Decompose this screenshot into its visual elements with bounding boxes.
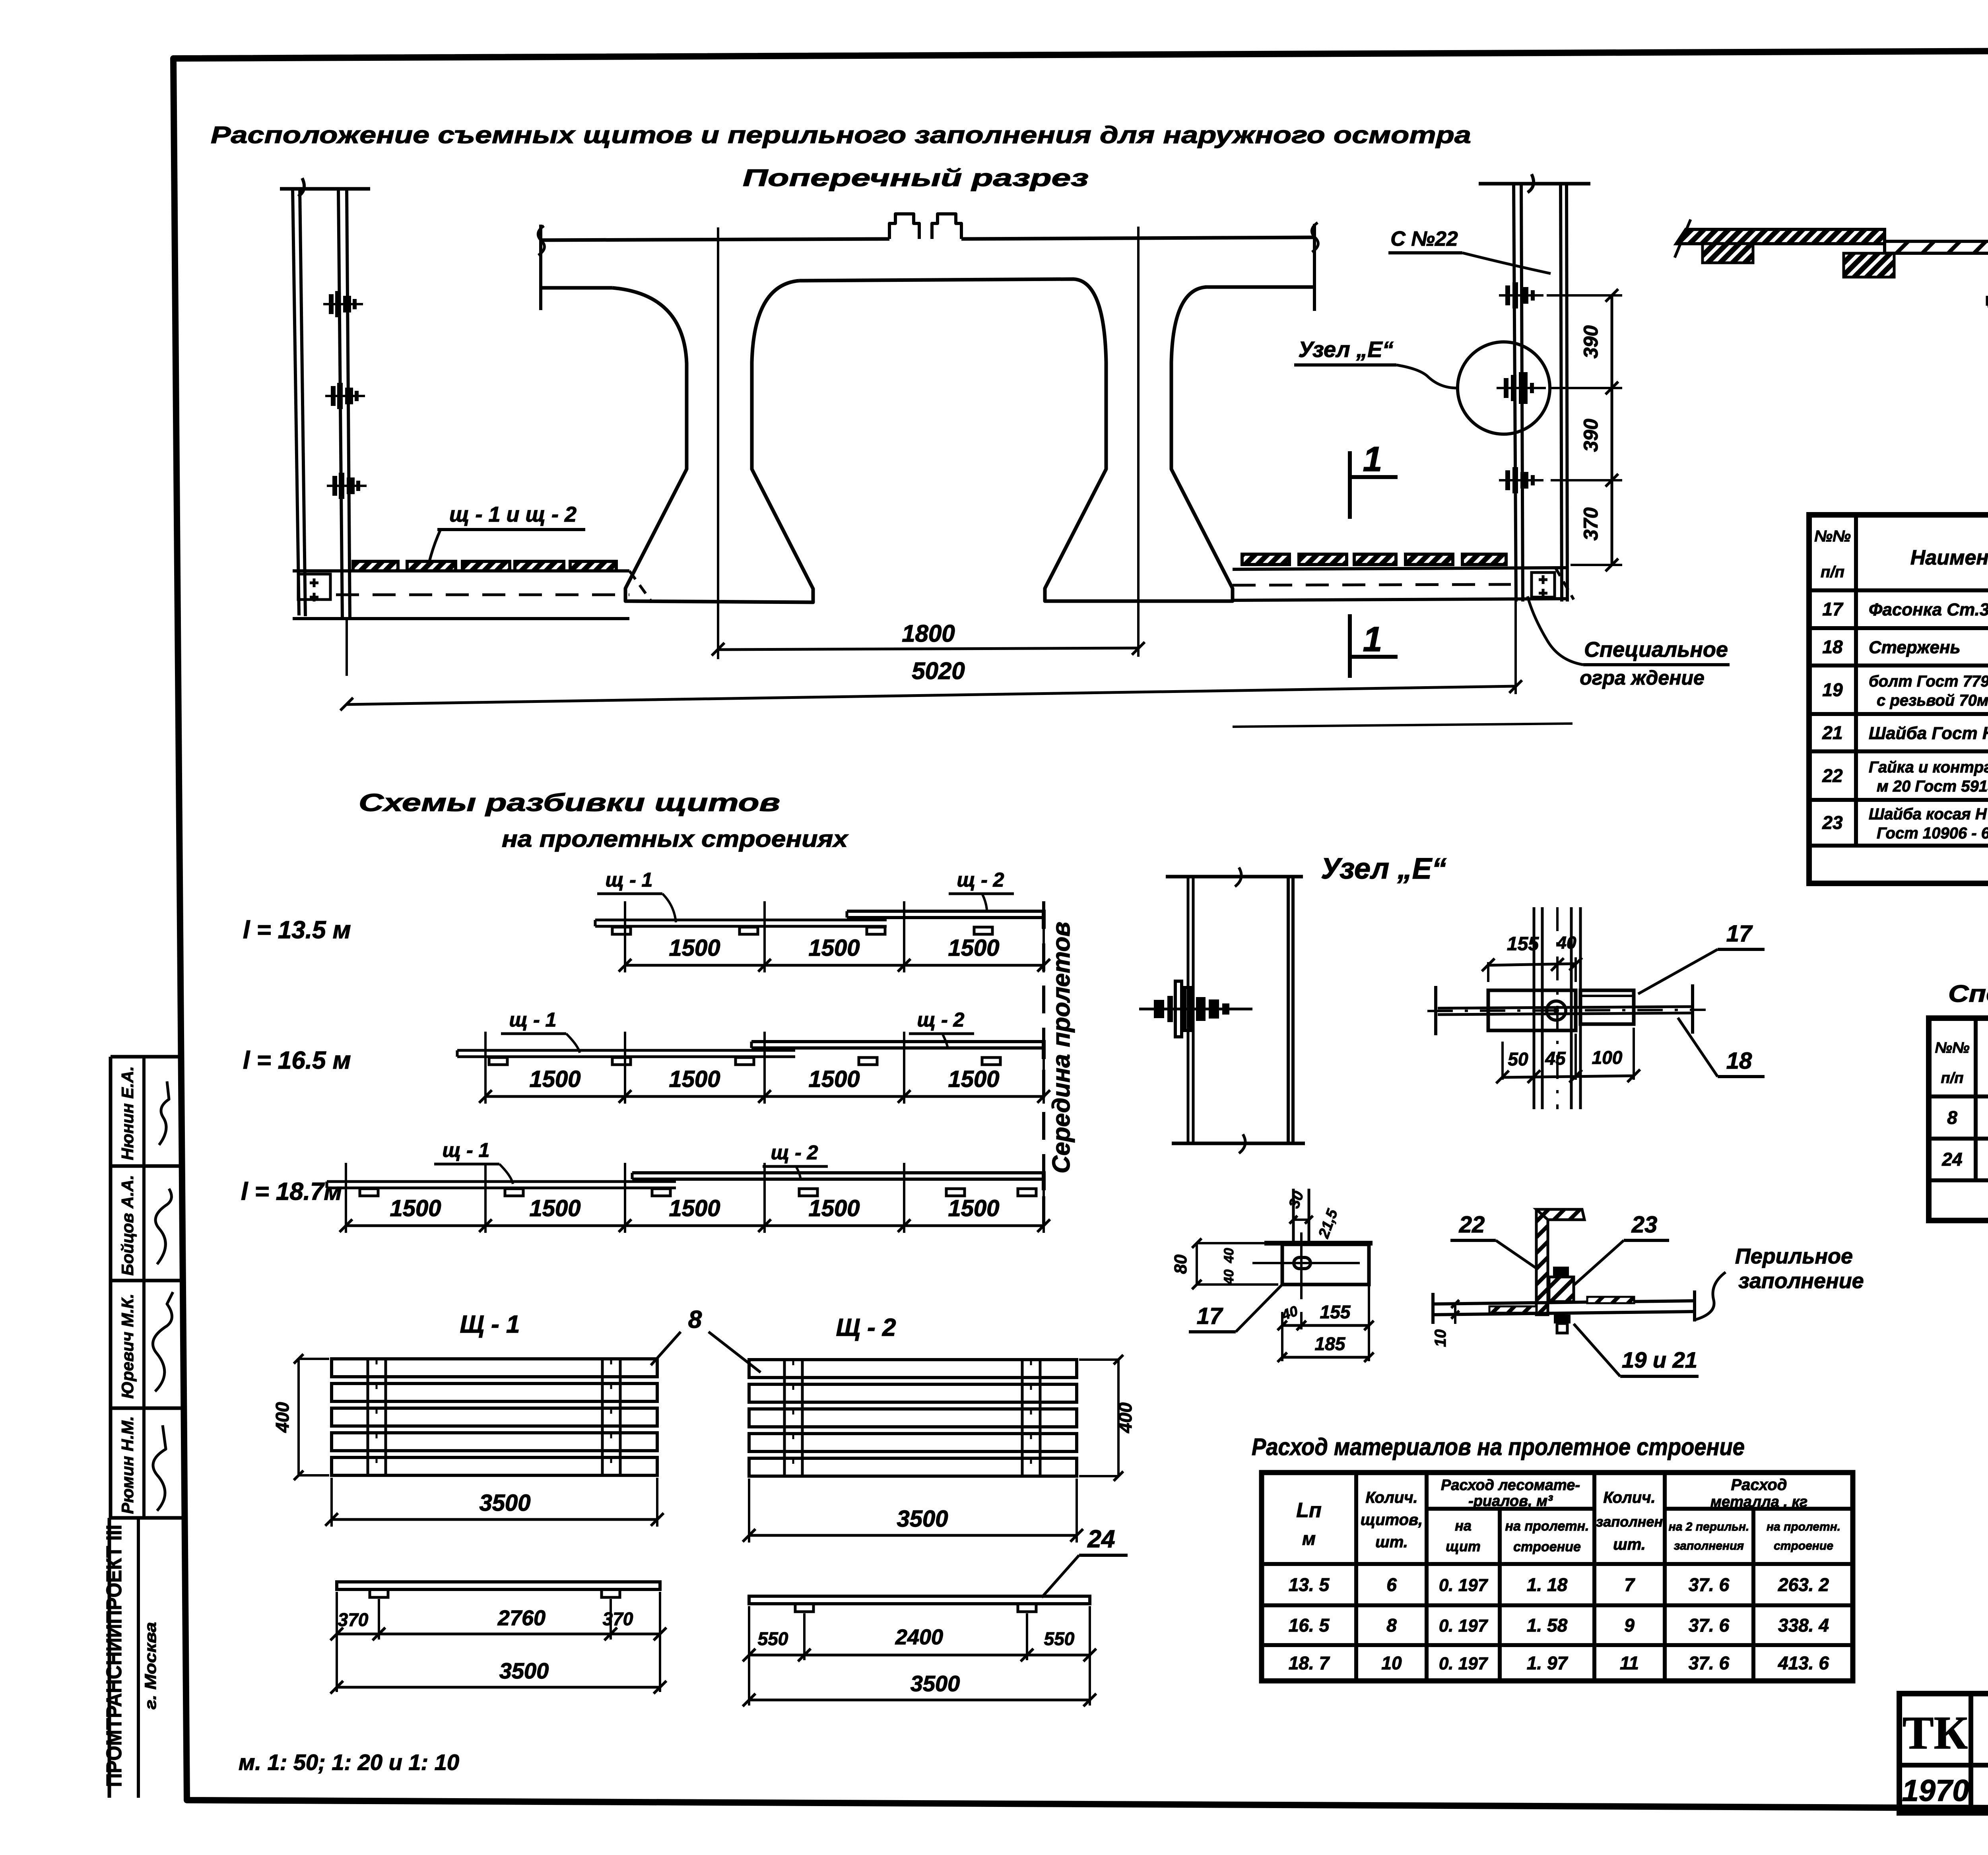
svg-text:50: 50 <box>1508 1049 1528 1069</box>
svg-text:37. 6: 37. 6 <box>1689 1653 1730 1673</box>
midspan axis line <box>1042 901 1045 1234</box>
svg-text:40: 40 <box>1221 1248 1237 1263</box>
title block frame <box>1899 1694 1988 1813</box>
svg-text:Середина пролетов: Середина пролетов <box>1048 922 1075 1173</box>
svg-text:Расположение съемных щитов: Расположение съемных щитов и перильного … <box>211 122 1471 148</box>
svg-text:3500: 3500 <box>499 1658 549 1683</box>
svg-text:1500: 1500 <box>529 1066 580 1092</box>
right post bolt 1 <box>1499 282 1543 309</box>
svg-text:1500: 1500 <box>808 1066 860 1092</box>
svg-text:370: 370 <box>603 1609 633 1629</box>
svg-text:1500: 1500 <box>948 1195 999 1221</box>
svg-text:18: 18 <box>1726 1048 1752 1074</box>
svg-text:Спецификация лесоматериалов: Спецификация лесоматериалов на два щита <box>1948 980 1988 1007</box>
detail 17 dim 80 <box>1196 1243 1198 1285</box>
panel Щ-2 batten dashes <box>792 1360 794 1476</box>
panel Щ-1 dim 400 <box>297 1359 300 1475</box>
svg-text:заполнения: заполнения <box>1674 1539 1744 1552</box>
svg-text:37. 6: 37. 6 <box>1689 1615 1730 1636</box>
svg-text:Щ - 2: Щ - 2 <box>836 1314 896 1341</box>
svg-text:щитов,: щитов, <box>1361 1511 1423 1529</box>
svg-text:6: 6 <box>1386 1574 1397 1595</box>
svg-text:С №22: С №22 <box>1390 227 1458 250</box>
svg-text:1800: 1800 <box>902 620 955 647</box>
svg-text:Колич.: Колич. <box>1365 1489 1417 1506</box>
1-1 left shield board <box>1676 229 1885 244</box>
svg-text:Узел „Е“: Узел „Е“ <box>1321 852 1446 885</box>
panel Щ-2 planks <box>749 1360 1077 1378</box>
node plan dims top 155 40 <box>1487 962 1489 982</box>
left handrail post <box>280 187 370 191</box>
svg-text:l = 16.5 м: l = 16.5 м <box>243 1047 351 1074</box>
svg-text:шт.: шт. <box>1375 1533 1408 1551</box>
svg-text:м: м <box>1302 1528 1316 1549</box>
svg-text:2400: 2400 <box>895 1625 943 1649</box>
svg-text:1: 1 <box>1363 619 1382 659</box>
svg-text:13. 5: 13. 5 <box>1289 1574 1330 1595</box>
svg-text:1500: 1500 <box>529 1195 580 1221</box>
svg-text:Поперечный разрез: Поперечный разрез <box>743 165 1089 191</box>
svg-text:155: 155 <box>1320 1302 1351 1322</box>
svg-text:Юревич М.К.: Юревич М.К. <box>118 1294 137 1399</box>
svg-text:0. 197: 0. 197 <box>1439 1654 1489 1673</box>
svg-text:400: 400 <box>272 1402 293 1433</box>
svg-text:8: 8 <box>1947 1107 1957 1128</box>
detail 17 bolt slot <box>1294 1257 1310 1269</box>
svg-text:п/п: п/п <box>1941 1070 1964 1087</box>
dim 10 left <box>1454 1304 1456 1324</box>
svg-text:на пролетных строениях: на пролетных строениях <box>502 826 849 852</box>
panel Щ-1 side dims <box>336 1592 338 1692</box>
svg-text:100: 100 <box>1592 1047 1623 1068</box>
svg-text:550: 550 <box>1044 1628 1075 1649</box>
scheme l = 13.5 м hooks <box>612 927 631 934</box>
svg-text:№№: №№ <box>1935 1040 1969 1056</box>
svg-text:9: 9 <box>1624 1615 1635 1636</box>
detail 17 plate <box>1264 1241 1373 1246</box>
svg-text:г. Москва: г. Москва <box>142 1622 159 1709</box>
svg-text:на пролетн.: на пролетн. <box>1767 1520 1840 1533</box>
svg-text:11: 11 <box>1620 1653 1639 1673</box>
svg-text:1500: 1500 <box>948 1066 999 1092</box>
svg-text:22: 22 <box>1822 765 1843 786</box>
scheme l = 13.5 м ticks and dimension <box>624 901 626 972</box>
svg-text:Бойцов А.А.: Бойцов А.А. <box>118 1175 137 1275</box>
left post bolt 2 <box>325 383 365 409</box>
midspan joint tabs <box>889 214 919 239</box>
beam rib 2 outline <box>799 279 1233 601</box>
svg-text:1. 18: 1. 18 <box>1527 1574 1568 1595</box>
1-1 deck board long <box>1885 241 1988 253</box>
svg-text:Стержень: Стержень <box>1869 638 1961 657</box>
panel Щ-2 side dims <box>748 1606 750 1706</box>
dimension 5020 <box>346 620 348 676</box>
svg-text:Специальное: Специальное <box>1584 638 1728 662</box>
svg-text:1. 97: 1. 97 <box>1527 1653 1569 1673</box>
svg-text:Lп: Lп <box>1296 1499 1322 1522</box>
rail hatch strips <box>1489 1306 1536 1313</box>
node E callout circle <box>1458 342 1550 434</box>
bolt below rail 19 21 <box>1554 1315 1571 1323</box>
svg-text:Нюнин Е.А.: Нюнин Е.А. <box>118 1066 137 1160</box>
svg-text:1500: 1500 <box>948 935 999 961</box>
panel Щ-1 dim 3500 <box>330 1478 333 1527</box>
section mark 1 lower <box>1348 614 1352 678</box>
svg-text:23: 23 <box>1822 812 1843 833</box>
scheme l = 18.7м ticks and dimension <box>345 1163 347 1233</box>
svg-text:1500: 1500 <box>390 1195 441 1221</box>
svg-text:390: 390 <box>1580 419 1602 452</box>
section mark 1 upper <box>1348 451 1352 519</box>
panel Щ-2 dim 3500 <box>748 1479 750 1543</box>
scheme l = 18.7м hooks <box>360 1189 378 1196</box>
svg-text:8: 8 <box>1386 1615 1397 1636</box>
svg-text:19 и 21: 19 и 21 <box>1622 1347 1697 1372</box>
svg-text:Расход материалов на пролет: Расход материалов на пролетное строение <box>1252 1434 1745 1460</box>
svg-text:щит: щит <box>1446 1538 1481 1554</box>
svg-text:17: 17 <box>1197 1303 1223 1329</box>
svg-text:23: 23 <box>1631 1212 1658 1238</box>
svg-text:338. 4: 338. 4 <box>1778 1615 1829 1636</box>
svg-text:10: 10 <box>1381 1653 1402 1673</box>
svg-text:Шайба косая Н 20: Шайба косая Н 20 <box>1869 805 1988 823</box>
svg-text:413. 6: 413. 6 <box>1778 1653 1829 1673</box>
svg-text:Колич.: Колич. <box>1603 1489 1655 1506</box>
spec timber grid <box>1929 1018 1988 1220</box>
svg-text:металла , кг: металла , кг <box>1710 1494 1807 1510</box>
svg-text:на: на <box>1455 1517 1472 1534</box>
svg-text:18. 7: 18. 7 <box>1289 1653 1330 1673</box>
left post bolt 1 <box>323 291 363 317</box>
node plan rod 18 <box>1438 1007 1693 1008</box>
svg-text:45: 45 <box>1545 1048 1566 1069</box>
node plan bolt circle <box>1547 1001 1566 1020</box>
svg-text:щ - 2: щ - 2 <box>917 1009 965 1031</box>
svg-text:390: 390 <box>1580 325 1602 359</box>
panel Щ-2 dim 400 <box>1117 1360 1120 1476</box>
svg-text:24: 24 <box>1087 1525 1115 1553</box>
svg-text:Шайба Гост Н371 - 68: Шайба Гост Н371 - 68 <box>1869 724 1988 743</box>
svg-text:строение: строение <box>1513 1539 1581 1554</box>
plus marks left box <box>310 582 318 584</box>
uzel E bolt assembly <box>1139 1008 1252 1011</box>
svg-text:22: 22 <box>1459 1212 1485 1238</box>
scheme l = 16.5 м ticks and dimension <box>484 1032 487 1104</box>
node plan post lines <box>1533 907 1536 1109</box>
svg-text:l = 18.7м: l = 18.7м <box>241 1178 342 1205</box>
panel Щ-1 battens <box>367 1359 369 1475</box>
rail member <box>1433 1301 1695 1304</box>
detail 17 rod lines <box>1292 1189 1295 1244</box>
svg-text:Щ - 1: Щ - 1 <box>460 1311 520 1338</box>
svg-text:263. 2: 263. 2 <box>1778 1574 1829 1595</box>
panel Щ-1 side view <box>337 1582 660 1589</box>
svg-text:с резьвой 70мм: с резьвой 70мм <box>1877 692 1988 709</box>
svg-text:щ - 2: щ - 2 <box>957 869 1004 891</box>
svg-text:5020: 5020 <box>912 658 965 684</box>
svg-text:м. 1: 50; 1: 20 и 1: 10: м. 1: 50; 1: 20 и 1: 10 <box>239 1750 459 1775</box>
svg-text:м 20 Гост 5915 - 62: м 20 Гост 5915 - 62 <box>1877 778 1988 795</box>
svg-text:37. 6: 37. 6 <box>1689 1574 1730 1595</box>
dimension 390 390 370 at right post <box>1611 295 1613 565</box>
svg-text:24: 24 <box>1941 1149 1962 1170</box>
svg-text:Гайка и контргайка: Гайка и контргайка <box>1869 759 1988 776</box>
svg-text:№№: №№ <box>1814 528 1851 545</box>
beam 1 centerline <box>717 227 719 659</box>
slab break marks <box>538 226 544 255</box>
svg-text:40: 40 <box>1221 1269 1237 1285</box>
rashod table grid <box>1262 1473 1853 1681</box>
spec metal table grid <box>1809 515 1988 883</box>
walkway planks left <box>353 561 398 571</box>
deck slab outline <box>541 239 889 240</box>
right handrail post <box>1479 182 1590 186</box>
beam rib 1 outline <box>612 281 813 602</box>
scheme bar l = 16.5 м <box>457 1049 795 1052</box>
walkway band left <box>293 569 629 572</box>
svg-text:155: 155 <box>1507 933 1539 955</box>
svg-text:заполнение: заполнение <box>1738 1269 1864 1293</box>
svg-text:Фасонка Ст.3м: Фасонка Ст.3м <box>1869 600 1988 619</box>
svg-text:Перильное: Перильное <box>1735 1244 1853 1268</box>
detail 17 dims 155 185 <box>1300 1312 1303 1329</box>
svg-text:21: 21 <box>1822 722 1842 743</box>
scheme l = 16.5 м hooks <box>489 1058 507 1065</box>
svg-text:шт.: шт. <box>1613 1536 1646 1553</box>
dimension 1800 <box>718 648 1138 650</box>
angle bolt cluster <box>1549 1277 1574 1302</box>
svg-text:Схемы разбивки щитов: Схемы разбивки щитов <box>359 789 780 817</box>
svg-text:1500: 1500 <box>669 1195 720 1221</box>
uzel E post elevation <box>1166 875 1303 879</box>
svg-text:80: 80 <box>1171 1254 1190 1274</box>
svg-text:3500: 3500 <box>911 1671 960 1696</box>
svg-text:1500: 1500 <box>808 1195 860 1221</box>
scheme bar l = 18.7м <box>327 1180 676 1183</box>
svg-text:Расход: Расход <box>1731 1476 1787 1494</box>
svg-text:40: 40 <box>1557 933 1576 953</box>
1-1 support blocks <box>1703 244 1753 263</box>
svg-text:3500: 3500 <box>479 1490 530 1516</box>
svg-text:8: 8 <box>688 1306 702 1333</box>
svg-text:щ - 2: щ - 2 <box>771 1141 818 1164</box>
svg-text:ТК: ТК <box>1903 1707 1968 1759</box>
svg-text:3500: 3500 <box>897 1506 948 1532</box>
svg-text:1970: 1970 <box>1902 1774 1969 1808</box>
svg-text:заполнен: заполнен <box>1596 1513 1663 1530</box>
svg-text:строение: строение <box>1774 1539 1833 1552</box>
walkway planks right <box>1242 554 1289 565</box>
svg-text:1500: 1500 <box>808 935 860 961</box>
svg-text:185: 185 <box>1315 1333 1346 1354</box>
svg-text:Узел „Е“: Узел „Е“ <box>1298 337 1393 362</box>
svg-text:1500: 1500 <box>669 935 720 961</box>
svg-text:щ - 1: щ - 1 <box>606 869 653 891</box>
angle 22 top leg <box>1536 1209 1584 1220</box>
detail 17 dim 30 top <box>1293 1219 1309 1221</box>
svg-text:Рюмин Н.М.: Рюмин Н.М. <box>118 1416 137 1514</box>
stamp grid <box>111 1055 184 1059</box>
svg-text:щ - 1 и щ - 2: щ - 1 и щ - 2 <box>449 503 577 526</box>
svg-text:16. 5: 16. 5 <box>1289 1615 1330 1636</box>
svg-text:Расход лесомате-: Расход лесомате- <box>1441 1477 1580 1494</box>
svg-text:2760: 2760 <box>497 1606 546 1630</box>
svg-text:0. 197: 0. 197 <box>1439 1576 1489 1595</box>
node plan gusset plate 17 <box>1488 990 1576 1030</box>
walkway band right <box>1233 568 1567 569</box>
svg-text:на пролетн.: на пролетн. <box>1505 1519 1589 1534</box>
svg-text:7: 7 <box>1624 1574 1635 1595</box>
scheme bar l = 13.5 м <box>595 919 887 922</box>
svg-text:0. 197: 0. 197 <box>1439 1616 1489 1636</box>
panel Щ-2 battens <box>783 1360 786 1476</box>
plus marks right box <box>1539 578 1547 581</box>
svg-text:огра ждение: огра ждение <box>1580 667 1705 689</box>
panel Щ-1 batten dashes <box>376 1359 378 1475</box>
baseline right <box>1233 724 1573 727</box>
svg-text:п/п: п/п <box>1821 563 1844 581</box>
svg-text:щ - 1: щ - 1 <box>509 1009 557 1031</box>
panel Щ-2 side view <box>749 1596 1090 1604</box>
svg-text:10: 10 <box>1432 1329 1449 1347</box>
svg-text:Гост 10906 - 66: Гост 10906 - 66 <box>1877 825 1988 842</box>
right post bolt 3 <box>1499 467 1543 493</box>
angle 22 vertical leg <box>1536 1209 1548 1315</box>
svg-text:1. 58: 1. 58 <box>1527 1615 1568 1636</box>
svg-text:1: 1 <box>1363 439 1382 479</box>
svg-text:щ - 1: щ - 1 <box>443 1139 490 1161</box>
svg-text:l = 13.5 м: l = 13.5 м <box>243 916 351 944</box>
svg-text:19: 19 <box>1822 679 1843 700</box>
svg-text:ПРОМТРАНСНИИПРОЕКТ III: ПРОМТРАНСНИИПРОЕКТ III <box>102 1525 126 1787</box>
svg-text:на 2 перильн.: на 2 перильн. <box>1669 1520 1749 1533</box>
svg-text:550: 550 <box>758 1628 788 1649</box>
beam 2 centerline <box>1137 227 1140 657</box>
svg-text:400: 400 <box>1115 1402 1136 1433</box>
left post bolt 3 <box>327 473 367 499</box>
svg-text:18: 18 <box>1822 636 1843 657</box>
svg-text:1500: 1500 <box>669 1066 720 1092</box>
node plan dims bottom 50 45 100 <box>1501 1042 1504 1080</box>
right post bolt 2 in node circle <box>1497 372 1546 404</box>
panel Щ-1 planks <box>332 1359 657 1377</box>
svg-text:-риалов, м³: -риалов, м³ <box>1468 1493 1553 1510</box>
stamp signatures <box>159 1081 169 1145</box>
svg-text:17: 17 <box>1822 599 1844 619</box>
svg-text:Наименование: Наименование <box>1910 546 1988 569</box>
svg-text:370: 370 <box>338 1609 369 1630</box>
svg-text:17: 17 <box>1726 921 1753 947</box>
svg-text:370: 370 <box>1580 507 1602 541</box>
svg-text:болт Гост 7798 - 62*: болт Гост 7798 - 62* <box>1869 673 1988 690</box>
